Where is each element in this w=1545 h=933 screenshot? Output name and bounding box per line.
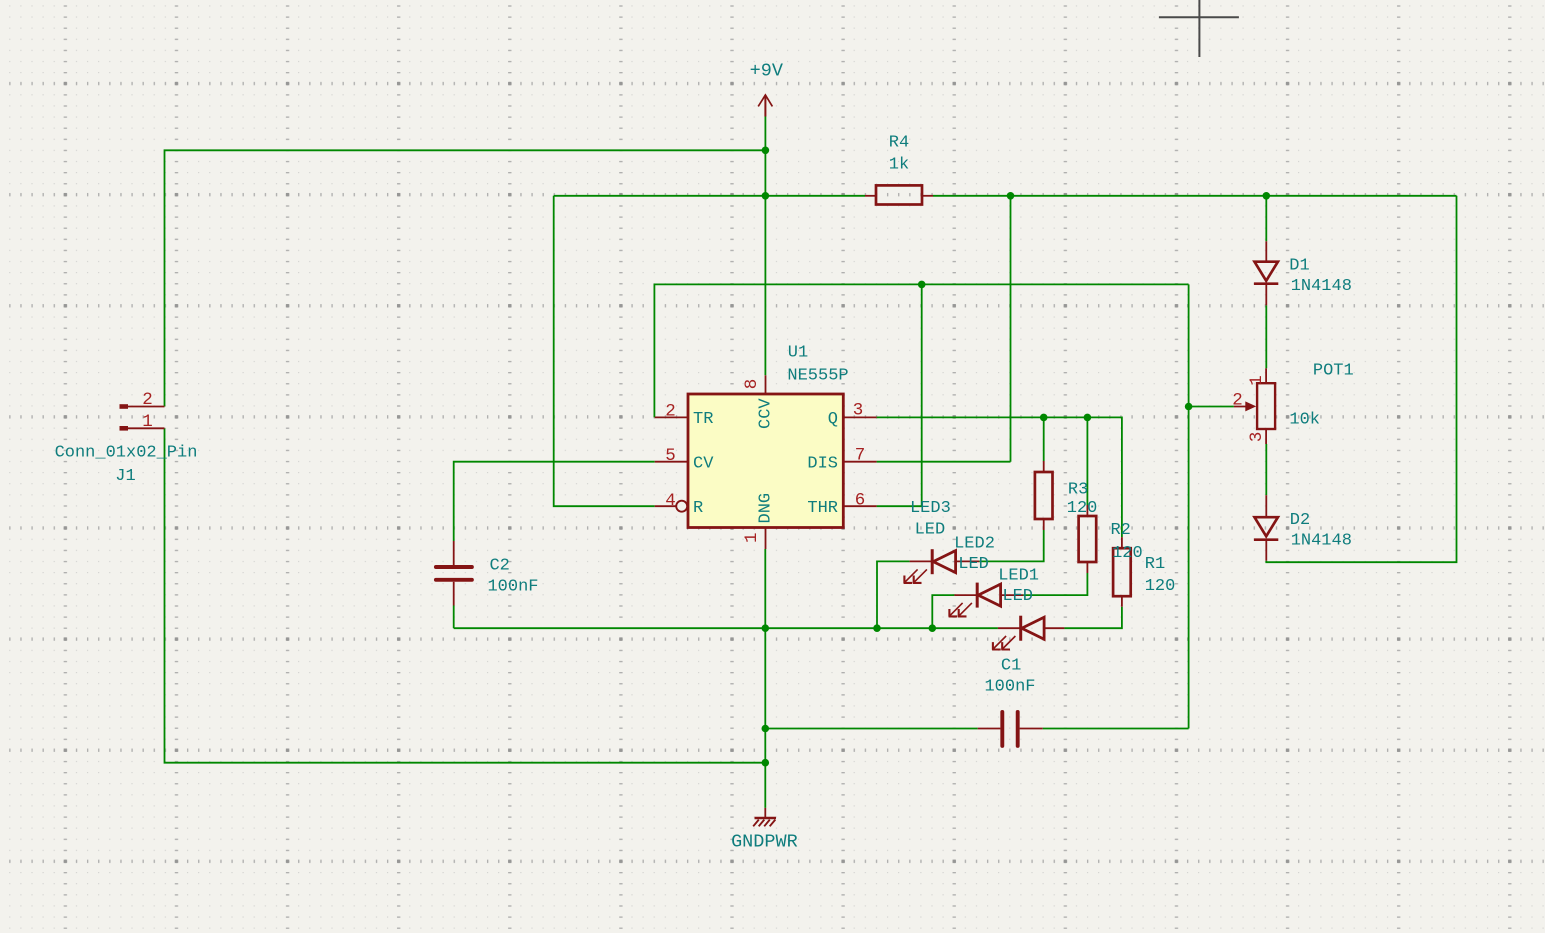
pin R4-2 stub <box>922 195 933 197</box>
wire +9V to VCC pin 8 <box>764 117 766 376</box>
cursor crosshair <box>1159 0 1239 57</box>
svg-text:LED1: LED1 <box>998 567 1039 586</box>
wire THR up link <box>921 284 923 506</box>
svg-text:3: 3 <box>1247 432 1267 443</box>
pin J1-2 <box>120 406 165 408</box>
wire C1 left <box>765 728 977 730</box>
junction <box>762 725 770 733</box>
pin R1-2 stub <box>1121 596 1123 607</box>
svg-text:1: 1 <box>742 532 762 543</box>
capacitor C2 plate 2 <box>436 578 472 582</box>
potentiometer POT1 wiper arrow <box>1245 401 1256 411</box>
svg-text:2: 2 <box>142 390 153 410</box>
junction <box>762 759 770 767</box>
wire C1 right <box>1043 728 1189 730</box>
wire rail to D1 <box>1265 196 1267 242</box>
pin U1-1 GND stub <box>765 528 767 550</box>
wire THR pin6 link <box>877 505 922 507</box>
pin U1-7 DIS stub <box>843 461 876 463</box>
wire LED2 anode to bus <box>932 595 954 628</box>
junction <box>918 281 926 289</box>
LED LED1 triangle <box>1022 617 1044 639</box>
capacitor C1 plate 1 <box>1000 712 1004 746</box>
svg-text:R: R <box>693 499 703 518</box>
junction <box>1084 414 1092 422</box>
diode D2 triangle <box>1255 517 1278 536</box>
svg-text:D1: D1 <box>1289 257 1309 276</box>
wire CV pin5 to C2 <box>454 462 655 541</box>
wire R3 bottom to LED3 <box>979 530 1043 561</box>
pin U1-4 R stub <box>655 505 677 507</box>
ground GNDPWR symbol <box>753 818 776 826</box>
svg-text:LED3: LED3 <box>910 499 951 518</box>
op-amp U1 body NE555P <box>688 394 843 528</box>
wire right drop to C1 <box>1188 284 1190 728</box>
pin C1-1 stub <box>978 728 1001 730</box>
svg-text:100nF: 100nF <box>984 678 1035 697</box>
pin R4-1 stub <box>865 195 876 197</box>
svg-text:Q: Q <box>828 410 838 429</box>
junction <box>1040 414 1048 422</box>
svg-text:1N4148: 1N4148 <box>1291 532 1352 551</box>
wire LED3 anode to bus <box>877 561 910 628</box>
pin U1-6 THR stub <box>843 505 876 507</box>
pin D2 cathode stub <box>1265 541 1267 561</box>
junction <box>762 624 770 632</box>
wire DIS pin7 to rail drop <box>877 461 1011 463</box>
wire Q to R2 top <box>1086 417 1088 505</box>
svg-text:Conn_01x02_Pin: Conn_01x02_Pin <box>55 444 198 463</box>
junction <box>929 624 937 632</box>
LED LED1 cathode bar <box>1019 616 1022 641</box>
junction <box>1263 192 1271 200</box>
svg-text:R4: R4 <box>889 134 909 153</box>
resistor R4 <box>876 185 922 204</box>
resistor R3 <box>1035 472 1053 519</box>
wire R1 bottom to LED1 <box>1064 607 1122 629</box>
wire TR-THR top link <box>654 284 1188 417</box>
capacitor C1 plate 2 <box>1016 712 1020 746</box>
svg-text:6: 6 <box>855 490 866 510</box>
wire D2 to bottom right loop <box>1266 196 1456 562</box>
LED LED1 emission arrows <box>992 636 1015 650</box>
svg-text:1: 1 <box>1247 375 1267 386</box>
svg-text:2: 2 <box>665 402 676 422</box>
svg-text:5: 5 <box>665 446 676 466</box>
svg-text:LED2: LED2 <box>954 535 995 554</box>
svg-text:8: 8 <box>742 379 762 390</box>
svg-text:J1: J1 <box>115 467 135 486</box>
LED LED3 triangle <box>933 551 955 573</box>
wire D1 to POT1 <box>1265 305 1267 368</box>
svg-text:R3: R3 <box>1068 481 1088 500</box>
pin U1-3 Q stub <box>843 416 876 418</box>
pin J1-1 <box>120 427 165 429</box>
wire ground bus <box>454 627 998 629</box>
svg-text:1k: 1k <box>889 156 909 175</box>
wire rail drop to DIS <box>1010 196 1012 462</box>
diode D1 cathode bar <box>1254 282 1278 285</box>
svg-text:D2: D2 <box>1290 511 1310 530</box>
svg-text:LED: LED <box>915 521 946 540</box>
svg-text:2: 2 <box>1232 391 1243 411</box>
pin C1-2 stub <box>1020 728 1043 730</box>
pin U1-2 TR stub <box>655 416 688 418</box>
wire bottom return to J1 pin1 <box>165 428 766 762</box>
svg-text:120: 120 <box>1067 499 1098 518</box>
pin J1-1 end mark <box>120 426 129 431</box>
pin J1-2 end mark <box>120 404 129 409</box>
junction <box>1007 192 1015 200</box>
diode D2 cathode bar <box>1254 538 1278 541</box>
svg-text:THR: THR <box>807 499 838 518</box>
pin D1 anode stub <box>1265 241 1267 261</box>
wire R2 bottom to LED2 <box>1023 573 1087 595</box>
pin LED3 cathode stub <box>910 560 933 562</box>
resistor R1 <box>1113 548 1131 596</box>
svg-text:100nF: 100nF <box>487 578 538 597</box>
svg-text:LED: LED <box>1002 587 1033 606</box>
pin LED1 anode stub <box>1044 627 1064 629</box>
pin R2-2 stub <box>1086 562 1088 573</box>
pin R2-1 stub <box>1086 505 1088 516</box>
pin U1-8 VCC stub <box>765 375 767 394</box>
svg-text:NE555P: NE555P <box>787 367 848 386</box>
svg-text:+9V: +9V <box>750 61 783 82</box>
junction <box>762 192 770 200</box>
svg-text:TR: TR <box>693 410 713 429</box>
svg-text:4: 4 <box>665 491 676 511</box>
pin LED1 cathode stub <box>998 627 1021 629</box>
diode D1 triangle <box>1255 262 1278 281</box>
capacitor C2 plate 1 <box>436 565 472 569</box>
svg-text:POT1: POT1 <box>1313 362 1354 381</box>
svg-text:1: 1 <box>142 412 153 432</box>
pin GNDPWR stub <box>764 808 766 818</box>
LED LED2 cathode bar <box>976 583 979 608</box>
wire GND pin1 down <box>764 549 766 808</box>
svg-text:C2: C2 <box>489 557 509 576</box>
pin R1-1 stub <box>1121 537 1123 548</box>
svg-text:7: 7 <box>855 446 866 466</box>
wire Q to R3 top <box>1043 417 1045 461</box>
power +9V symbol <box>758 95 772 117</box>
pin D2 anode stub <box>1265 495 1267 517</box>
svg-text:R1: R1 <box>1145 555 1165 574</box>
potentiometer POT1 body <box>1257 383 1275 429</box>
pin POT1-1 stub <box>1265 368 1267 383</box>
resistor R2 <box>1079 516 1097 562</box>
svg-text:120: 120 <box>1145 577 1176 596</box>
pin U1-4 inversion bubble <box>676 501 687 512</box>
svg-text:3: 3 <box>853 401 864 421</box>
svg-text:1N4148: 1N4148 <box>1291 277 1352 296</box>
pin LED3 anode stub <box>956 560 979 562</box>
pin LED2 cathode stub <box>954 594 977 596</box>
wire VCC rail down to R pin 4 <box>554 196 655 506</box>
svg-text:C1: C1 <box>1001 657 1021 676</box>
wire POT1 wiper feed <box>1189 406 1234 408</box>
svg-text:DNG: DNG <box>757 493 776 524</box>
wire main VCC rail right of R4 <box>933 195 1457 197</box>
junction <box>873 624 881 632</box>
wire top link J1 pin2 to +9V <box>165 150 766 406</box>
wire main VCC rail left of R4 <box>554 195 865 197</box>
wire Q pin3 output <box>877 417 1122 537</box>
pin POT1-2 stub <box>1234 406 1250 408</box>
pin U1-5 CV stub <box>655 461 688 463</box>
svg-text:10k: 10k <box>1289 410 1320 429</box>
svg-text:CCV: CCV <box>757 398 776 429</box>
pin POT1-3 stub <box>1265 429 1267 444</box>
pin C2-1 stub <box>453 541 455 565</box>
LED LED2 triangle <box>978 584 1000 606</box>
svg-text:120: 120 <box>1112 544 1143 563</box>
svg-text:CV: CV <box>693 455 714 474</box>
LED LED2 emission arrows <box>949 603 972 617</box>
svg-text:DIS: DIS <box>807 455 838 474</box>
svg-text:GNDPWR: GNDPWR <box>731 832 798 853</box>
pin C2-2 stub <box>453 582 455 606</box>
svg-text:LED: LED <box>958 555 989 574</box>
pin LED2 anode stub <box>1000 594 1023 596</box>
LED LED3 emission arrows <box>904 569 927 583</box>
wire POT1 to D2 <box>1265 444 1267 495</box>
svg-text:R2: R2 <box>1110 521 1130 540</box>
wire C2 bottom to bus <box>453 606 455 629</box>
junction <box>762 147 770 155</box>
pin R3-2 stub <box>1043 519 1045 530</box>
svg-text:U1: U1 <box>788 344 808 363</box>
pin D1 cathode stub <box>1265 284 1267 306</box>
pin R3-1 stub <box>1043 461 1045 472</box>
junction <box>1185 403 1193 411</box>
LED LED3 cathode bar <box>931 549 934 574</box>
